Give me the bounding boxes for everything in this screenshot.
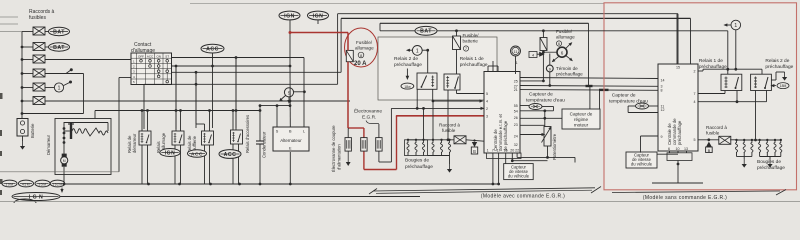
svg-text:Batterie: Batterie — [30, 123, 35, 138]
svg-text:de préchauffage: de préchauffage — [503, 120, 508, 151]
node BAT oval 1 — [45, 31, 49, 33]
svg-text:Capteur de: Capteur de — [612, 93, 636, 99]
svg-text:6: 6 — [561, 50, 564, 55]
wire: solenoid 3 return loop — [378, 151, 380, 162]
svg-text:Bougies de: Bougies de — [757, 159, 781, 165]
node ACC oval 3 — [219, 150, 241, 159]
svg-text:démarreur: démarreur — [132, 133, 137, 153]
svg-text:BAT: BAT — [420, 29, 432, 35]
bougie de prechauffage 4 (sans g2) — [780, 141, 782, 152]
fusible link F4 — [33, 69, 45, 77]
svg-text:12: 12 — [661, 108, 665, 112]
svg-text:20 A: 20 A — [354, 61, 367, 67]
wire: alternator pin drops — [260, 105, 290, 107]
wire: fuse row 3 leads — [22, 59, 33, 61]
wire: battery link verticals — [83, 74, 85, 114]
svg-text:B: B — [473, 149, 476, 154]
fusible batterie — [453, 36, 461, 50]
relais de soufflerie — [202, 131, 214, 145]
svg-text:6: 6 — [558, 42, 560, 46]
glow plug bus (sans) — [737, 139, 782, 141]
svg-text:ACC: ACC — [206, 46, 219, 52]
temoin de prechauffage lamp — [557, 47, 567, 57]
node label oval 18w — [401, 83, 414, 89]
svg-text:batterie: batterie — [463, 39, 479, 44]
svg-text:2: 2 — [486, 107, 488, 111]
circled connector 1 — [45, 87, 54, 89]
svg-text:54: 54 — [514, 109, 518, 113]
potentiometre — [544, 127, 551, 147]
svg-text:1: 1 — [416, 49, 419, 55]
svg-text:ON: ON — [156, 54, 161, 58]
bougies box group — [405, 140, 428, 156]
capteur de vitesse du vehicule (avec) — [504, 164, 534, 180]
svg-text:BAT: BAT — [53, 29, 65, 35]
svg-text:Bougies de: Bougies de — [405, 158, 429, 164]
ground: battery — [22, 136, 24, 141]
temp sensor oval (avec) — [529, 104, 542, 110]
node label oval 18M — [777, 83, 789, 89]
wire: fuse row 4 leads — [22, 73, 33, 75]
svg-text:ACC: ACC — [224, 152, 237, 158]
svg-text:moteur: moteur — [574, 123, 589, 128]
wire: pin2 net — [698, 70, 703, 72]
relais 2 switch box — [417, 73, 437, 89]
node ACC oval top — [201, 44, 224, 53]
svg-text:préchauffage: préchauffage — [699, 64, 727, 70]
circled 9 — [546, 65, 553, 72]
svg-text:BAT: BAT — [53, 45, 65, 51]
centrale de commande de prechauffage (sans) — [658, 64, 698, 151]
svg-text:17: 17 — [497, 149, 501, 153]
connector B (avec) — [473, 139, 475, 141]
svg-text:Relais 1 de: Relais 1 de — [460, 56, 484, 62]
centrale de commande de prechauffage (avec) — [484, 72, 520, 154]
wire: fuse row 2 leads — [22, 46, 33, 48]
svg-text:14: 14 — [661, 79, 665, 83]
wire loop pins 11/12 (sans) — [649, 105, 659, 107]
bus B1 — [338, 13, 678, 15]
svg-text:15: 15 — [676, 66, 680, 70]
capteur de regime moteur — [562, 109, 600, 129]
wire: fuse4 right with arrow — [45, 73, 66, 75]
svg-text:préchauffage: préchauffage — [460, 62, 488, 68]
svg-text:fusible: fusible — [706, 131, 720, 136]
svg-text:Relais 1 de: Relais 1 de — [699, 58, 723, 64]
bougie de prechauffage 3 (sans g2) — [774, 141, 776, 152]
bus B2 — [341, 17, 690, 19]
relay2 enclosure (avec modele) — [378, 37, 497, 100]
glow plug bus (avec) — [408, 139, 454, 141]
red wire: to centrale pin 3 — [397, 115, 485, 117]
svg-text:S: S — [276, 130, 279, 134]
bougie de prechauffage 6 (avec) — [448, 141, 450, 152]
svg-text:allumage: allumage — [556, 35, 575, 40]
starter solenoid coil — [72, 128, 108, 136]
svg-text:Fusible/: Fusible/ — [556, 29, 573, 34]
bottom ground bus ovals — [2, 180, 17, 187]
label: modele avec commande EGR — [373, 188, 595, 191]
node IGN oval bottom — [12, 193, 60, 201]
svg-text:E.G.R.: E.G.R. — [362, 115, 376, 121]
down arrow to label oval — [406, 69, 408, 77]
svg-text:M: M — [63, 159, 66, 163]
wire: fuse row 5 leads — [22, 87, 33, 89]
wire: drops to relays — [195, 71, 198, 74]
capteur de vitesse (sans) — [626, 152, 657, 168]
relais 1 box (avec) — [444, 74, 460, 90]
wire: left fuse bus vertical — [21, 32, 23, 119]
svg-text:ACC: ACC — [147, 54, 154, 58]
svg-text:1: 1 — [58, 86, 61, 92]
svg-text:préchauffage: préchauffage — [405, 164, 433, 170]
svg-text:Relais d'accessoires: Relais d'accessoires — [245, 115, 250, 153]
svg-text:26: 26 — [514, 116, 518, 120]
svg-text:55: 55 — [514, 104, 518, 108]
svg-text:1: 1 — [487, 149, 489, 153]
red wire: EGR control to pin 3 — [396, 115, 484, 117]
svg-text:6: 6 — [668, 147, 670, 151]
svg-text:13: 13 — [684, 147, 688, 151]
fusible link F5 — [33, 83, 45, 91]
svg-text:4: 4 — [694, 100, 696, 104]
wire: IGN drop at x290 — [289, 20, 291, 66]
wires: relais pins (sans) — [698, 93, 725, 95]
svg-text:du véhicule: du véhicule — [631, 162, 653, 167]
wire: fuse6 battery feed line to x347 — [45, 100, 350, 102]
svg-text:10: 10 — [676, 147, 680, 151]
svg-text:(Modèle avec commande E.G.R.): (Modèle avec commande E.G.R.) — [481, 194, 565, 200]
svg-text:fusibles: fusibles — [29, 15, 46, 21]
svg-text:Fusible/: Fusible/ — [356, 40, 373, 45]
wire: relay feed line — [95, 110, 260, 112]
svg-text:Potentiomètre: Potentiomètre — [552, 133, 557, 160]
svg-text:35M: 35M — [38, 182, 46, 186]
svg-text:7: 7 — [465, 47, 467, 51]
circled connector 1 (sans) — [731, 20, 741, 30]
svg-text:ACC: ACC — [191, 151, 203, 157]
bougie de prechauffage 1 (sans g2) — [759, 141, 761, 152]
wire: BAT bus into red box — [437, 30, 728, 32]
fusible allumage 20A — [346, 50, 353, 61]
svg-text:du véhicule: du véhicule — [508, 173, 530, 178]
relais d allumage — [172, 131, 184, 145]
svg-text:4: 4 — [532, 53, 534, 57]
svg-text:8: 8 — [360, 54, 362, 58]
fusible allumage (temoin) — [540, 38, 547, 51]
wire: fold line left — [0, 171, 119, 173]
svg-text:température d'eau: température d'eau — [526, 98, 565, 104]
svg-text:162M: 162M — [53, 182, 63, 186]
wires: bottom pins (sans) — [667, 153, 692, 161]
circled connector 1 mid — [412, 46, 422, 56]
solenoid 3 EGR — [376, 138, 382, 152]
solenoid 1 electrovanne de coupure — [347, 128, 349, 138]
svg-text:7: 7 — [492, 149, 494, 153]
svg-text:Capteur de: Capteur de — [529, 92, 553, 98]
svg-text:24: 24 — [514, 135, 518, 139]
svg-text:ST: ST — [165, 54, 169, 58]
node BAT oval mid — [380, 30, 415, 32]
wire: fuse3 to ignition switch — [45, 59, 131, 61]
node IGN oval top 2 — [308, 11, 329, 20]
svg-text:Relais 2 de: Relais 2 de — [394, 56, 418, 62]
solenoid 2 EGR — [361, 138, 367, 152]
wires: relais1 pins down — [447, 90, 449, 140]
svg-text:IGN: IGN — [313, 13, 324, 19]
svg-text:5: 5 — [486, 92, 488, 96]
svg-text:21: 21 — [514, 88, 518, 92]
bougie de prechauffage 4 (avec) — [432, 141, 434, 152]
svg-text:8: 8 — [661, 89, 663, 93]
svg-text:Capteur de: Capteur de — [570, 112, 593, 117]
bougie de prechauffage 3 (sans g1) — [751, 141, 753, 152]
connector plug under centrale — [487, 153, 522, 159]
svg-text:1: 1 — [734, 23, 737, 29]
svg-text:Condensateur: Condensateur — [262, 131, 267, 158]
battery — [17, 119, 28, 137]
bus B3 — [380, 22, 589, 24]
svg-text:(Modèle sans commande E.G.R.): (Modèle sans commande E.G.R.) — [643, 195, 727, 201]
alternateur — [273, 127, 309, 151]
svg-text:Électrovanne: Électrovanne — [354, 108, 382, 115]
svg-text:9: 9 — [661, 135, 663, 139]
svg-text:Témoin de: Témoin de — [556, 66, 578, 71]
bottom ground bus — [65, 183, 500, 185]
connector B (sans) — [698, 139, 719, 141]
svg-text:19M: 19M — [5, 182, 13, 186]
svg-text:11: 11 — [514, 50, 518, 54]
svg-text:préchauffage: préchauffage — [677, 120, 682, 145]
svg-text:fusible: fusible — [442, 128, 456, 133]
red border box (modele sans commande EGR) — [604, 3, 797, 190]
demarreur enclosure — [55, 119, 111, 175]
fusible link F1 — [33, 27, 45, 35]
bougie de prechauffage 5 (avec) — [440, 141, 442, 152]
bougie de prechauffage 2 (sans g1) — [743, 141, 745, 152]
svg-text:Alternateur: Alternateur — [280, 138, 302, 143]
svg-text:Raccord à: Raccord à — [439, 123, 460, 128]
red wire: ignition feed — [290, 32, 348, 34]
wire: table outputs — [172, 57, 304, 59]
svg-text:18w: 18w — [404, 85, 411, 89]
svg-text:Fusible/: Fusible/ — [463, 33, 480, 38]
svg-text:IGN: IGN — [165, 150, 175, 156]
wires: centrale right pins top group — [520, 78, 658, 79]
svg-text:OFF: OFF — [138, 54, 144, 58]
svg-text:9: 9 — [549, 67, 551, 71]
svg-text:2: 2 — [694, 70, 696, 74]
wire: relais2 output to centrale — [391, 107, 484, 109]
svg-text:18M: 18M — [780, 84, 787, 88]
wire: relais2 coil to pin4 line — [432, 89, 434, 101]
svg-text:préchauffage: préchauffage — [757, 165, 785, 171]
svg-text:B: B — [289, 130, 292, 134]
fusible link F3 — [33, 55, 45, 63]
svg-text:régime: régime — [574, 117, 588, 122]
svg-text:23: 23 — [514, 123, 518, 127]
wires: centrale bottom pin drops — [492, 153, 494, 184]
svg-text:B: B — [708, 148, 711, 153]
fusible link F2 — [33, 43, 45, 51]
svg-text:allumage: allumage — [355, 46, 374, 51]
red highlight ellipse — [345, 28, 378, 67]
wires pins 26/23 — [520, 117, 562, 119]
wires: centrale top pins — [487, 66, 489, 72]
bougie de prechauffage 1 (avec) — [407, 141, 409, 152]
condensateur — [259, 106, 261, 141]
wires: relay outputs to plugs — [423, 108, 425, 139]
circled connector 11 — [511, 46, 521, 56]
svg-text:L: L — [303, 130, 305, 134]
svg-text:E: E — [289, 147, 292, 151]
svg-text:Démarreur: Démarreur — [46, 134, 51, 155]
bougie de prechauffage 2 (avec) — [415, 141, 417, 152]
svg-text:Électrovanne de coupure: Électrovanne de coupure — [331, 125, 336, 172]
node ACC oval under relay — [188, 150, 207, 158]
bougie de prechauffage 2 (sans g2) — [766, 141, 768, 152]
svg-text:préchauffage: préchauffage — [556, 72, 583, 77]
node IGN oval under relay — [160, 149, 180, 157]
svg-text:Raccord à: Raccord à — [706, 125, 727, 130]
node IGN oval top 1 — [279, 11, 300, 20]
svg-text:45M: 45M — [22, 182, 30, 186]
fusible link F6 — [33, 97, 45, 105]
wire: fuse row 1 leads — [22, 31, 33, 33]
svg-text:5: 5 — [694, 138, 696, 142]
bougie de prechauffage 3 (avec) — [422, 141, 424, 152]
svg-text:préchauffage: préchauffage — [394, 62, 422, 68]
relais d accessoires — [231, 130, 243, 144]
node BAT oval 2 — [45, 46, 49, 48]
svg-text:32: 32 — [514, 143, 518, 147]
partial oval bottom — [14, 199, 36, 203]
label: modele sans commande EGR — [612, 191, 780, 193]
svg-text:Relais 2 de: Relais 2 de — [765, 58, 789, 64]
wire: fuse row 6 leads — [22, 100, 33, 102]
svg-text:22: 22 — [515, 149, 519, 153]
ground relais 2 — [771, 79, 776, 81]
svg-text:25: 25 — [514, 80, 518, 84]
svg-text:20: 20 — [510, 149, 514, 153]
connector arrow 4 — [529, 52, 537, 58]
starter motor M — [62, 154, 67, 158]
svg-text:préchauffage: préchauffage — [765, 64, 793, 70]
wire loop pins 55/54 — [520, 105, 529, 107]
relais de demarreur — [139, 131, 151, 145]
svg-text:IGN: IGN — [284, 13, 295, 19]
svg-text:4: 4 — [486, 100, 488, 104]
svg-text:16: 16 — [504, 149, 508, 153]
red wire: EGR highlight path — [348, 127, 364, 129]
svg-text:d'alimentation: d'alimentation — [337, 144, 342, 170]
wires: top pin 15 and circled 1 — [676, 14, 678, 64]
charge warning light — [284, 88, 293, 97]
bougie de prechauffage 1 (sans g1) — [735, 141, 737, 152]
svg-text:7: 7 — [694, 92, 696, 96]
svg-text:3: 3 — [486, 114, 488, 118]
